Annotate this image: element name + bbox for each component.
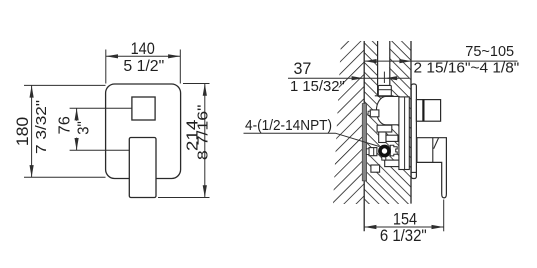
front port (1/2-14NPT) ring — [380, 146, 389, 155]
svg-text:6 1/32": 6 1/32" — [380, 227, 427, 245]
valve body: mid block — [377, 125, 392, 132]
dimension 75~105 / 2 15/16"~4 1/8" (wall depth range) — [364, 60, 517, 62]
dimension 214 / 8 7/16" (overall height) — [158, 84, 210, 198]
dimension 76 / 3" (button-to-handle spacing) — [70, 108, 132, 150]
valve body: upper back port stub — [370, 110, 379, 117]
svg-text:8 7/16": 8 7/16" — [195, 105, 212, 161]
svg-text:2 15/16"~4 1/8": 2 15/16"~4 1/8" — [414, 60, 520, 76]
dimension 140 / 5 1/2" (plate width) — [106, 50, 181, 84]
wall intermediate line 1 — [377, 41, 379, 96]
svg-text:37: 37 — [293, 59, 311, 78]
valve body: block above front port — [386, 135, 398, 141]
dimension 37 / 1 15/32" (valve depth) — [288, 77, 409, 79]
valve body: lower back port stub — [369, 148, 377, 156]
valve body: top outlet stub — [378, 85, 391, 96]
valve body: stub base flange — [375, 95, 394, 97]
valve body: small tab under port — [382, 156, 386, 160]
valve body: bottom foot — [371, 165, 380, 172]
hatch gap band — [378, 40, 389, 89]
svg-text:3": 3" — [75, 121, 92, 135]
mounting bracket (grey strip) — [362, 104, 366, 181]
wall back face line — [363, 41, 365, 231]
wall front face line — [410, 41, 412, 204]
svg-text:154: 154 — [393, 210, 417, 229]
trim plate (front view) — [106, 84, 181, 179]
lever handle (side view) — [417, 138, 447, 198]
diverter button (front view) — [132, 97, 155, 120]
svg-text:180: 180 — [13, 117, 32, 147]
svg-text:140: 140 — [131, 39, 155, 58]
svg-text:1 15/32": 1 15/32" — [290, 79, 345, 95]
wall hatching left (rough wall) — [333, 41, 364, 204]
svg-text:7 3/32": 7 3/32" — [33, 100, 50, 154]
trim plate (side view) — [411, 84, 416, 179]
valve body: bracket right of port — [390, 145, 397, 156]
svg-text:4-(1/2-14NPT): 4-(1/2-14NPT) — [245, 118, 332, 134]
svg-text:76: 76 — [57, 116, 74, 134]
svg-text:75~105: 75~105 — [465, 44, 514, 60]
valve body: small block left — [379, 132, 386, 143]
plaster guard — [399, 97, 409, 170]
lever handle (front view) — [129, 138, 156, 198]
diverter button (side view) — [416, 100, 440, 122]
wall intermediate line 2 — [389, 41, 391, 87]
dimension 180 / 7 3/32" (plate height) — [24, 85, 106, 177]
svg-text:5 1/2": 5 1/2" — [123, 58, 164, 75]
valve body: lower block — [385, 160, 401, 167]
valve body: cartridge dome — [376, 96, 399, 124]
wall hatching right (finished wall range) — [364, 41, 411, 204]
dimension 154 / 6 1/32" (overall depth) — [443, 200, 445, 232]
